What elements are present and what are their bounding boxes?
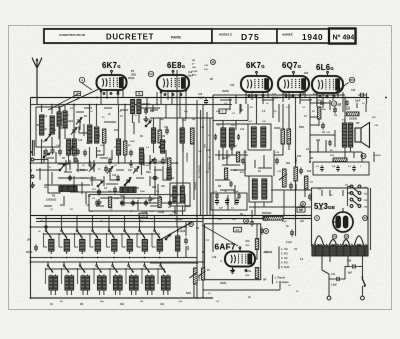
switch row1 bus dots <box>50 257 52 259</box>
bus y218 <box>36 218 312 220</box>
left lower fillers <box>65 160 67 172</box>
left rf grounds <box>96 199 101 205</box>
tube V4 6Q7 <box>278 71 309 92</box>
center vertical x203 <box>202 104 204 290</box>
left rf trimmers2 <box>71 128 77 135</box>
tube V6 6AF7 <box>225 247 255 267</box>
right extra wires <box>356 103 358 108</box>
ground symbol earth <box>30 182 35 188</box>
tone box <box>313 162 369 175</box>
junction dots buses <box>96 97 98 99</box>
left gap coil <box>161 140 165 153</box>
cap c35 <box>184 237 188 244</box>
circled M2 <box>301 202 306 207</box>
capacitor C25b <box>260 227 264 234</box>
boxed label K1 <box>139 213 147 218</box>
svg-text:4μF: 4μF <box>219 208 223 210</box>
bus y298 bottom <box>31 297 214 299</box>
title box modele <box>212 29 277 43</box>
svg-text:0,1μF: 0,1μF <box>233 191 239 193</box>
left rf caps2 <box>97 188 101 195</box>
junction dots left <box>41 162 43 164</box>
boxed label B <box>136 92 143 96</box>
capacitor C22b <box>289 182 293 189</box>
IFT3 box <box>249 176 272 202</box>
circled 14 <box>361 154 366 159</box>
bandswitch row2 unit 7 <box>144 262 146 265</box>
mains plug terminals <box>327 296 331 300</box>
wire ift2 top <box>256 95 258 124</box>
diagonal wires to V1 <box>60 89 99 107</box>
resistor R16 <box>305 176 308 189</box>
mid horiz y118 <box>150 117 213 119</box>
capacitor C40 <box>350 264 357 268</box>
wire ift1 <box>222 121 224 129</box>
scan grain filter def <box>0 0 1 1</box>
center vertical x197 <box>196 100 198 298</box>
potentiometer 2 <box>202 268 205 280</box>
IFT3 primary coil <box>252 179 257 199</box>
heater bus wire <box>203 289 280 291</box>
IFT1 primary coil <box>221 128 226 147</box>
wire t1 <box>344 98 346 124</box>
wires left rf <box>41 139 43 163</box>
circled M <box>264 229 269 234</box>
coil L14 <box>173 186 177 203</box>
mid horiz y190 <box>271 189 311 191</box>
title box annee <box>277 29 329 43</box>
bandswitch row2 unit 3 <box>79 262 81 265</box>
bandswitch row1 unit 2 <box>61 227 63 230</box>
switch S5 <box>159 142 165 148</box>
coil L16 <box>180 128 184 143</box>
resistor R15 horizontal <box>263 217 283 221</box>
bandswitch row1 unit 3 <box>76 227 78 230</box>
wire det <box>295 150 297 163</box>
bus second horizontal <box>31 104 233 106</box>
row2 horiz link <box>45 268 165 270</box>
capacitor C26 <box>308 193 312 200</box>
center vertical x177 <box>176 70 178 227</box>
tube V7 5Y3 rectifier <box>332 208 353 232</box>
bandswitch row2 unit 5 <box>112 262 114 265</box>
resistor R4 <box>158 130 161 143</box>
title box numero <box>329 29 356 44</box>
capacitor C11 <box>153 157 157 164</box>
capacitor C30 <box>358 93 366 98</box>
mid horiz y207 <box>249 206 311 208</box>
capacitor C1 <box>51 147 55 154</box>
coil right of row1 <box>176 236 180 251</box>
padding coil horizontal <box>59 186 77 192</box>
svg-text:15: 15 <box>211 60 215 64</box>
coil L8 <box>95 127 99 143</box>
tube V5 6L6 <box>312 71 343 93</box>
left rf switches2 <box>124 180 130 186</box>
bandswitch row2 unit 8 <box>160 262 162 265</box>
bus open node <box>45 226 47 228</box>
mid horiz y176 <box>245 175 249 177</box>
circled side pins <box>315 216 320 221</box>
capacitor C5 <box>129 149 133 156</box>
boxed label 7 <box>219 109 226 113</box>
padding coil horizontal 2 <box>120 187 136 193</box>
psu top wires <box>321 190 323 196</box>
circled 13 <box>331 101 336 106</box>
wire T branch <box>48 163 60 193</box>
bandswitch row1 unit 5 <box>108 227 110 230</box>
fuse switch <box>362 278 366 286</box>
bus y227 switch top <box>31 226 188 228</box>
mid horiz y120b <box>213 120 248 122</box>
box antenna coils <box>36 107 60 147</box>
wire A to switch <box>34 160 48 164</box>
center vertical x207 <box>206 112 208 215</box>
svg-text:50μF: 50μF <box>150 199 156 201</box>
antenna lead wire <box>32 140 34 156</box>
AVC box resistors <box>109 197 112 208</box>
resistor R17 horizontal <box>347 112 360 116</box>
switch S4 <box>145 121 151 127</box>
tube V4 pins <box>282 92 284 102</box>
more bus drops <box>45 216 47 228</box>
diagonal wire into 6AF7 grid <box>202 225 238 246</box>
left extra hwires <box>36 124 40 126</box>
bandswitch row1 unit 4 <box>92 227 94 230</box>
caps cluster <box>215 198 219 205</box>
far right vertical x386 <box>366 93 368 104</box>
output transformer T1 secondary <box>348 123 353 147</box>
capacitor C31 <box>333 106 337 113</box>
potentiometer 1M <box>194 268 198 284</box>
coil L11 <box>137 100 141 114</box>
svg-text:170Ω: 170Ω <box>192 71 198 73</box>
IFT2 primary coil <box>251 127 256 147</box>
wire mains left <box>328 274 330 296</box>
capacitor C10 <box>165 127 169 134</box>
boxed label K3 <box>297 208 305 213</box>
coil L5 <box>67 139 71 155</box>
right horiz y152 <box>310 151 362 153</box>
coil L7 <box>88 125 92 143</box>
bandswitch row2 unit 2 <box>63 262 65 265</box>
right vertical x295 <box>295 98 297 237</box>
IFT2 box <box>248 124 271 150</box>
volume pot <box>283 169 287 187</box>
switch S1 <box>45 134 51 141</box>
antenna <box>32 58 42 105</box>
row1 drop wires <box>45 227 47 230</box>
resistor R19 h <box>333 158 347 161</box>
center vertical x183 <box>182 118 184 186</box>
tone caps <box>320 165 323 172</box>
boxed label 8 <box>74 92 81 96</box>
bus y221 <box>36 221 203 223</box>
capacitor C2 <box>83 149 87 156</box>
right column fillers <box>365 104 367 112</box>
capacitor C4 <box>144 107 148 114</box>
wire 6af7 <box>255 250 257 260</box>
left vertical bus <box>30 98 32 299</box>
bandswitch row1 unit 7 <box>139 227 141 230</box>
right top extra wires <box>317 102 330 104</box>
bus top horizontal <box>31 97 370 99</box>
tube V1 pins <box>100 90 102 105</box>
6AF7 box <box>205 224 261 280</box>
coil L13 osc <box>140 148 144 164</box>
AVC box caps <box>95 200 99 207</box>
coil L15 <box>180 186 184 203</box>
capacitor C12 <box>161 157 165 164</box>
capacitor C6 <box>151 176 158 180</box>
IFT1 secondary coil <box>229 128 234 147</box>
mid extra wires <box>218 150 220 160</box>
capacitor C23b <box>299 167 303 174</box>
resistor R9 <box>168 158 171 170</box>
tube V2 6E8 <box>157 70 189 91</box>
tube V5 pins <box>316 93 318 103</box>
tube pin terminals <box>103 93 105 95</box>
capacitor C21 <box>275 157 279 164</box>
mid horiz y124 <box>216 123 248 125</box>
wire 6e8 g <box>156 92 158 105</box>
center spine extra <box>200 110 202 215</box>
switch S6 <box>165 234 171 240</box>
wire b6 diag <box>335 83 349 94</box>
circled 53 <box>148 71 153 76</box>
resistor R23 <box>255 268 258 279</box>
trimmer CV2 <box>89 165 95 172</box>
5Y3 box <box>312 188 369 246</box>
right top extra parts <box>328 140 331 146</box>
bottom left dots <box>30 297 32 299</box>
6AF7 cathode ground <box>230 268 235 274</box>
coil L4 <box>63 111 67 127</box>
circled B6 <box>349 77 354 82</box>
bandswitch row1 unit 8 <box>154 227 156 230</box>
cap C15 <box>204 98 208 105</box>
power transformer core <box>312 246 368 256</box>
row1 horiz link <box>43 233 160 235</box>
box osc coil <box>170 183 190 206</box>
bus y257 <box>31 257 198 259</box>
transformer top hatchband <box>312 244 367 246</box>
IFT3 secondary coil <box>262 179 267 199</box>
capacitor C32 <box>318 101 325 105</box>
capacitor C41 <box>334 277 341 281</box>
mid horiz y155 <box>215 154 248 156</box>
wire mid spines <box>244 150 246 176</box>
K3 right vertical wire <box>370 188 372 250</box>
resistor R8 vertical <box>191 128 195 144</box>
capacitor C34b <box>290 229 294 236</box>
capacitor C20 <box>241 157 245 164</box>
IFT2 secondary coil <box>261 127 266 147</box>
switch S2 <box>59 164 65 171</box>
bandswitch row2 unit 4 <box>96 262 98 265</box>
boxed label K2 <box>234 227 242 232</box>
AVC box <box>89 195 185 212</box>
svg-text:B4: B4 <box>264 216 268 220</box>
selector wires <box>348 186 352 188</box>
tube V3 pins <box>245 92 247 104</box>
svg-text:K1: K1 <box>141 214 145 218</box>
coil L6 <box>72 139 76 155</box>
mid extra parts <box>229 181 232 187</box>
coil L3 <box>57 112 61 126</box>
resistor R13 <box>287 129 291 144</box>
mains wires <box>322 256 329 274</box>
center vertical x213 <box>212 95 214 252</box>
tube V2 pins <box>160 91 162 105</box>
circled pins 5y3 <box>332 234 337 239</box>
tube V1 6K7 <box>97 70 127 90</box>
coil L1 <box>40 115 44 135</box>
voltage selector contacts <box>350 185 353 188</box>
bandswitch row2 unit 1 <box>47 262 49 265</box>
bandswitch row1 unit 6 <box>124 227 126 230</box>
coil L10 <box>131 100 135 114</box>
under-tube wiring fillers <box>146 98 148 113</box>
resistor R18 <box>318 107 321 119</box>
5Y3 heater loops <box>315 236 364 248</box>
resistor R3 <box>124 141 127 155</box>
circled A <box>79 77 84 82</box>
bottom mid wires <box>150 262 197 264</box>
title box constructeur <box>44 29 212 43</box>
osc wires <box>174 206 176 216</box>
svg-text:0,5M: 0,5M <box>114 198 119 200</box>
coil L12 <box>152 128 156 143</box>
svg-text:14: 14 <box>362 154 366 158</box>
IFT1 side trimmers <box>214 134 217 140</box>
right vertical x310 <box>309 98 311 163</box>
svg-text:12000Ω: 12000Ω <box>195 182 197 190</box>
bandswitch row1 unit 1 <box>45 227 47 230</box>
capacitor C3 <box>108 157 112 164</box>
resistor R1 <box>103 129 106 143</box>
switch S3 <box>97 181 103 187</box>
resistor R14 <box>294 167 297 181</box>
extra circled labels <box>189 222 194 227</box>
left vertical fillers <box>43 150 45 163</box>
bus y215 <box>31 215 312 217</box>
coil L9 <box>117 139 121 155</box>
capacitor C13 <box>148 195 152 202</box>
bus y163 <box>31 162 179 164</box>
antenna changeover switch <box>43 153 50 158</box>
resistor R22 <box>255 239 258 250</box>
bus y262 <box>31 261 204 263</box>
output transformer T1 primary <box>342 123 347 147</box>
left gap caps <box>76 148 80 155</box>
capacitor C14 <box>158 195 162 202</box>
svg-text:2kΩ: 2kΩ <box>192 67 196 69</box>
coil L2 <box>50 116 54 134</box>
tube V3 6K7 <box>241 71 272 92</box>
capacitor C33 <box>321 122 325 129</box>
capacitor C24b <box>250 219 254 226</box>
diagonal wire K1 to bank <box>158 222 192 241</box>
caps cluster box <box>211 193 247 210</box>
trimmer CV1 <box>76 118 82 125</box>
resistor R12 <box>281 129 285 144</box>
bandswitch row2 unit 6 <box>128 262 130 265</box>
speaker <box>355 123 370 148</box>
